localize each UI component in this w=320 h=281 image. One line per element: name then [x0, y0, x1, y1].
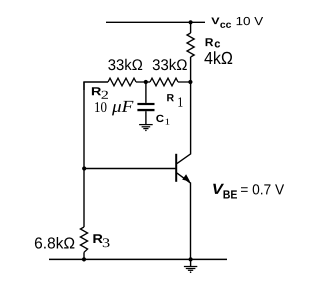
wire Rc to collector corner — [177, 57, 191, 164]
wire bottom rail — [49, 258, 227, 260]
wire R2 to junction — [136, 81, 150, 83]
node R1 R2 C1 junction dot — [144, 80, 148, 84]
wire base — [84, 168, 176, 170]
label R1 — [167, 94, 182, 107]
transistor Q1 emitter lead — [177, 173, 191, 260]
resistor R2 — [108, 78, 136, 86]
transistor Q1 emitter arrow — [182, 174, 190, 181]
label R3 — [93, 234, 109, 247]
node Vcc junction dot — [189, 20, 193, 24]
wire left rail — [83, 82, 85, 227]
transistor Q1 base bar — [175, 154, 177, 182]
label 10 uF — [95, 101, 133, 116]
ground for C1 — [139, 125, 153, 132]
wire R3 to bottom rail — [83, 252, 85, 259]
wire junction to capacitor — [145, 82, 147, 103]
label VBE = 0.7 V — [213, 184, 284, 199]
label 10 V — [237, 17, 264, 25]
wire R1 to right rail — [178, 81, 191, 83]
node R1 right junction dot — [188, 80, 192, 84]
node emitter ground junction dot — [189, 257, 193, 261]
wire ground stub — [190, 259, 192, 266]
label Rc — [206, 38, 221, 47]
resistor Rc — [187, 33, 194, 57]
label R2 — [92, 87, 108, 99]
wire capacitor to ground — [145, 111, 147, 124]
node base junction dot — [82, 166, 86, 170]
label C1 — [156, 115, 169, 125]
label 6.8k ohm — [35, 237, 75, 249]
wire top Vcc rail — [106, 21, 205, 23]
wire Vcc dot to Rc — [190, 22, 192, 33]
ground main — [184, 267, 197, 274]
resistor R1 — [150, 78, 178, 86]
resistor R3 — [80, 227, 87, 252]
label 33k ohm (above R2) — [108, 59, 142, 70]
capacitor C1 — [137, 103, 154, 111]
label 4k ohm — [204, 51, 232, 64]
node R3 bottom junction dot — [82, 257, 86, 261]
label 33k ohm (above R1) — [153, 59, 187, 70]
wire top-left corner to R2 — [84, 82, 108, 90]
label Vcc — [211, 18, 231, 28]
